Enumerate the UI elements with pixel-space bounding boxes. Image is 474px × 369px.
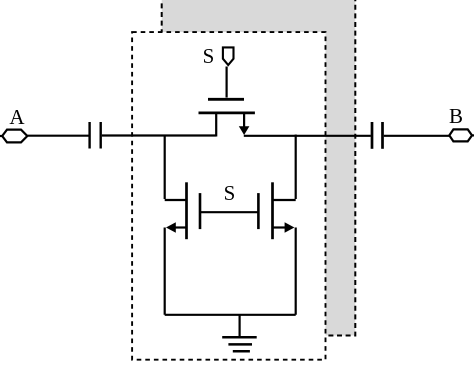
control port S (top) [223,47,234,65]
gate wire M1 [226,67,228,98]
M2 source arrow [166,222,176,232]
wire M1 to C2 [244,135,371,137]
M2 drain lead [175,226,187,228]
ground symbol [222,337,257,351]
M3 source down wire [295,228,297,315]
shunt branch wire left [165,135,187,201]
shaded substrate region (gray dashed rectangle) [162,0,356,336]
svg-text:S: S [224,181,236,205]
capacitor C2 [372,122,383,149]
M2 source down wire [164,228,166,315]
svg-text:B: B [449,104,463,128]
ground stem [239,315,241,337]
M1 source lead [215,113,217,137]
M1 drain lead [243,113,245,127]
capacitor C1 [90,122,101,149]
wire C1 to M1 source [102,134,216,136]
port A [0,135,3,137]
svg-text:A: A [9,105,25,129]
port B [449,129,472,141]
shared gate line [200,211,258,213]
transistor M3 channel bar [271,182,274,239]
wire A to C1 [27,135,88,137]
transistor M3 gate bar [257,193,260,229]
switch cell boundary (white dashed rectangle) [132,32,325,360]
ground rail [165,314,296,316]
transistor M1 channel bar [199,112,255,115]
transistor M1 gate bar [208,98,244,101]
shunt branch wire right [273,135,296,201]
M1 drain arrow [239,126,250,135]
transistor M2 gate bar [199,193,202,229]
M3 source arrow [285,222,295,232]
svg-text:S: S [203,44,215,68]
transistor M2 channel bar [185,182,188,239]
M3 drain lead [273,226,286,228]
wire C2 to B [384,135,450,137]
